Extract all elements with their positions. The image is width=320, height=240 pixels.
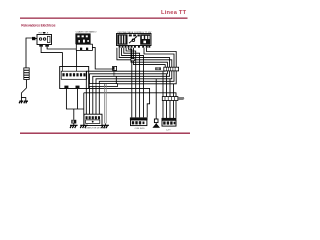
wires U1 right pins to strip X6 (fan)	[147, 48, 177, 67]
long bus wire	[84, 93, 176, 118]
branch wire to connector B pin4	[90, 88, 150, 117]
wire crossing X2 right portion	[86, 71, 88, 88]
panel P1 base box	[76, 44, 92, 50]
control unit U1 body	[117, 34, 152, 46]
svg-text:Relevadores Eléctricos: Relevadores Eléctricos	[21, 24, 55, 28]
mesh wires strip X6 to connector A feeds	[86, 71, 165, 115]
connector X2 interior stubs	[62, 67, 76, 72]
relay K1 top tick	[43, 32, 45, 34]
connector B body	[131, 120, 147, 126]
lug X3 ground stub	[73, 124, 75, 126]
ground G4	[80, 125, 88, 128]
resistor R1 (fuse element)	[24, 68, 29, 80]
lamp terminal	[154, 119, 158, 123]
panel P1 icon windows	[77, 35, 88, 42]
wires U1 left pins staircase to connector B	[122, 48, 144, 118]
relay K1 terminal 85	[39, 45, 43, 47]
terminal lug X3	[71, 120, 76, 124]
connector X2 body	[60, 67, 89, 89]
wire K1 t85 to connector X2	[41, 47, 62, 69]
flat connector X8	[85, 84, 118, 87]
lamp terminal wire	[155, 79, 157, 119]
connector X5 tail	[113, 71, 114, 76]
ground G2	[24, 101, 28, 103]
connector A inner band	[86, 120, 100, 124]
strip X7 cap	[178, 97, 184, 99]
splice bead on fan wire	[131, 59, 135, 61]
connector C body	[162, 120, 176, 126]
connector X2 inner row	[61, 71, 86, 79]
connector strip X6	[164, 67, 179, 71]
relay K1 body	[37, 35, 52, 45]
wires X6 down to connector C	[162, 72, 164, 118]
wire X2 tab2 down	[77, 89, 79, 110]
flat connector X8 pin ticks	[86, 84, 106, 87]
connector A inner mark	[92, 121, 94, 123]
connector A body	[84, 114, 102, 125]
riser into flat connector	[115, 76, 117, 83]
U1 right section	[140, 34, 150, 44]
strip X6 cap	[155, 67, 161, 70]
svg-text:CUADRO DE MANDO: CUADRO DE MANDO	[76, 31, 97, 34]
wire K1 t87 to panel P1	[47, 47, 76, 49]
U1 middle marks	[129, 34, 132, 36]
svg-text:CON. B-20: CON. B-20	[135, 128, 146, 130]
wire lug to resistor R1	[26, 38, 32, 68]
resistor R1 stripes	[24, 70, 29, 77]
terminal lug left of K1	[32, 37, 35, 40]
connector X2 tab 2	[76, 86, 80, 89]
ground G5	[101, 125, 109, 128]
wire P1 base to connector X2	[76, 50, 78, 66]
connector A pins	[86, 116, 101, 119]
connector B inner marks	[132, 121, 145, 124]
header rule	[20, 18, 188, 19]
relay K1 coil	[47, 36, 50, 42]
footer rule	[20, 133, 190, 134]
inline connector strip X7	[162, 97, 178, 101]
ground G3	[70, 125, 78, 128]
svg-text:Linea TT: Linea TT	[161, 10, 187, 16]
connector C inner marks	[163, 121, 175, 124]
wire P1 to inline connector X5	[92, 48, 112, 69]
wires U1 mid pins to strip X6 (long fan)	[131, 48, 167, 67]
panel P1 base pins	[80, 48, 82, 51]
U1 left section	[117, 34, 127, 44]
ground G1	[19, 101, 23, 103]
wire X2 tab1 down	[66, 89, 83, 110]
connector X2 tab 1	[64, 86, 68, 89]
inline connector X5	[113, 66, 117, 70]
wire branch to lug X3	[73, 109, 75, 120]
U1 pin row	[119, 46, 151, 48]
wire K1 to lug	[32, 38, 37, 40]
wire R1 to grounds	[21, 80, 26, 101]
wires U1 left pins long fan to strip X6	[117, 48, 172, 67]
relay K1 terminal 87	[45, 45, 49, 47]
relay K1 contact b	[43, 38, 45, 40]
connector C top bar	[162, 118, 177, 120]
svg-text:C-TT: C-TT	[166, 129, 171, 131]
wire bus riser	[83, 93, 85, 125]
panel P1 icon body	[75, 33, 90, 44]
relay K1 contact a	[39, 38, 41, 40]
ground G6 triangle	[153, 123, 159, 128]
shield line	[105, 84, 107, 123]
connector B top bar	[130, 117, 148, 120]
